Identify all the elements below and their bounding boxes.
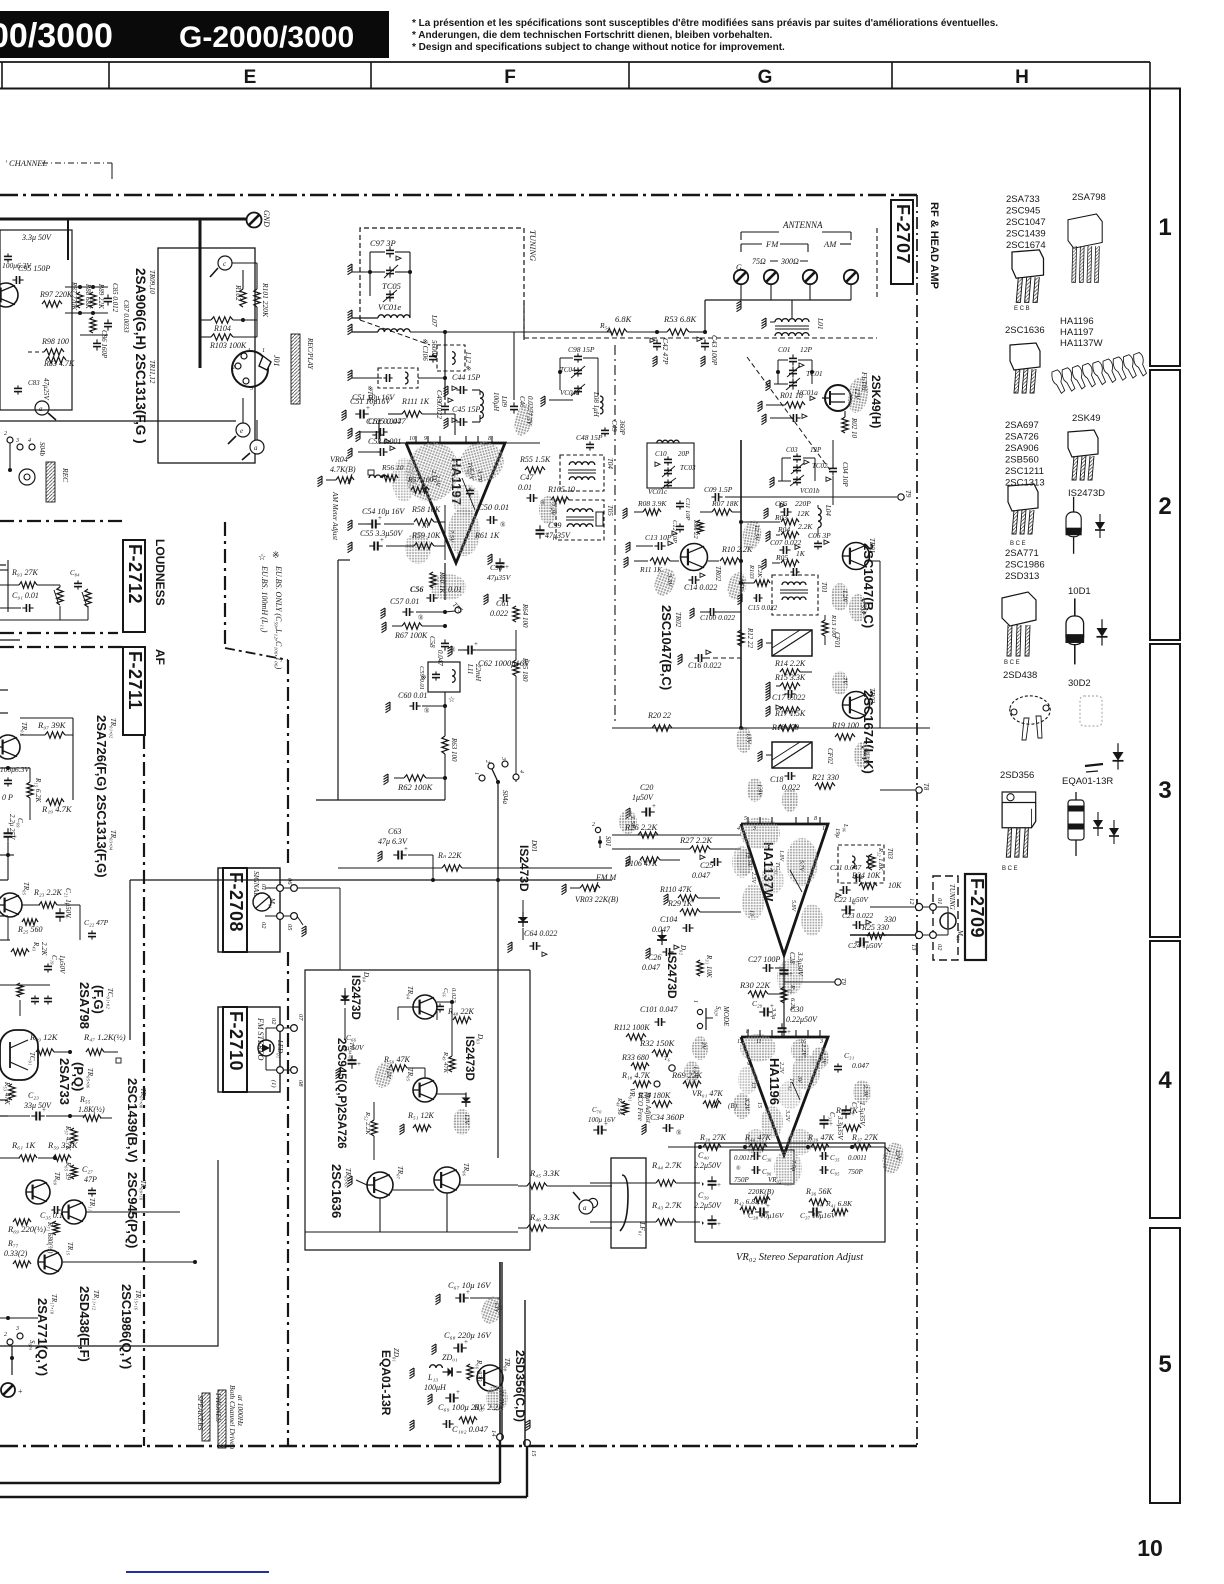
af block right dash border [287, 952, 289, 1445]
block label F-2711 AF [123, 647, 145, 735]
svg-text:2SA798: 2SA798 [1072, 192, 1106, 203]
svg-text:☆: ☆ [258, 552, 266, 562]
title bar (black) [0, 11, 389, 58]
svg-text:12: 12 [737, 1039, 743, 1045]
svg-text:+: + [787, 1028, 791, 1036]
svg-text:R₅₉ 3.3K: R₅₉ 3.3K [47, 1140, 79, 1150]
capacitor C46 0.022 [510, 405, 518, 407]
svg-text:R₂₃ 2.2K: R₂₃ 2.2K [33, 888, 62, 897]
IF transformer T06 dashed box [378, 368, 418, 388]
svg-text:R111 1K: R111 1K [401, 397, 430, 406]
svg-text:(1): (1) [270, 1080, 277, 1088]
svg-text:※: ※ [272, 550, 280, 560]
svg-text:3.3μ 50V: 3.3μ 50V [21, 233, 52, 242]
capacitor C58 0.047 [441, 642, 449, 644]
dashed gang link diagonal [747, 357, 830, 470]
svg-text:C10: C10 [655, 450, 667, 458]
svg-text:13: 13 [748, 910, 754, 916]
svg-text:100μ6.3V: 100μ6.3V [2, 261, 32, 270]
svg-text:D₀₃: D₀₃ [476, 1033, 484, 1044]
svg-text:REC: REC [61, 467, 70, 483]
svg-text:R103: R103 [748, 564, 755, 579]
svg-text:TR₀₁: TR₀₁ [20, 722, 28, 735]
svg-text:C₂₃: C₂₃ [28, 1091, 39, 1100]
transistor TR01 2SC1047 right [843, 543, 870, 570]
svg-text:2SC1047(B,C): 2SC1047(B,C) [659, 605, 674, 690]
svg-text:T03: T03 [886, 848, 894, 859]
svg-text:R₃₇ 27K: R₃₇ 27K [851, 1133, 878, 1142]
resistor R65 39 [71, 1165, 77, 1179]
svg-text:5600P: 5600P [430, 340, 438, 359]
hatch marks eqa left [410, 1368, 415, 1379]
loudness interior pot 2 [85, 589, 91, 607]
svg-text:12: 12 [908, 898, 915, 905]
resistor R22 1.8K [869, 854, 875, 870]
svg-text:2SC1439: 2SC1439 [1006, 229, 1046, 240]
capacitor C12 10P [676, 525, 684, 527]
svg-text:R₂₉: R₂₉ [789, 984, 796, 994]
svg-text:C₈₄: C₈₄ [70, 569, 80, 577]
svg-text:C₃₅ 0.1: C₃₅ 0.1 [40, 1211, 63, 1220]
svg-text:F-2709: F-2709 [967, 878, 987, 938]
svg-text:IS2473D: IS2473D [517, 845, 531, 892]
svg-text:RF & HEAD AMP: RF & HEAD AMP [928, 202, 940, 289]
bottom bus wire 1 [0, 1482, 500, 1484]
svg-text:Rₙ 22K: Rₙ 22K [437, 851, 462, 860]
svg-text:R33 680: R33 680 [621, 1053, 649, 1062]
svg-text:VC01e: VC01e [378, 302, 401, 312]
svg-text:C27 100P: C27 100P [748, 955, 780, 964]
svg-text:2SK49(H): 2SK49(H) [869, 375, 883, 428]
resistor R02 10 [842, 417, 848, 433]
diode symbol IS2473 [1095, 514, 1105, 538]
svg-text:TR₁₁: TR₁₁ [88, 1198, 96, 1211]
svg-text:(F,G): (F,G) [91, 985, 106, 1014]
svg-text:R103 100K: R103 100K [209, 341, 247, 350]
svg-text:REC/PLAY: REC/PLAY [306, 337, 314, 370]
svg-text:S₀₇ₐ: S₀₇ₐ [28, 1340, 36, 1350]
svg-text:08: 08 [297, 1080, 304, 1087]
svg-text:C20: C20 [640, 783, 653, 792]
svg-text:R24 10K: R24 10K [851, 871, 881, 880]
svg-text:3: 3 [500, 756, 506, 760]
svg-text:FM: FM [765, 239, 779, 249]
svg-text:2SA726: 2SA726 [1005, 432, 1039, 443]
gray blob 22.5V [486, 1385, 508, 1411]
svg-text:C63: C63 [388, 827, 401, 836]
svg-text:R13 100: R13 100 [830, 614, 837, 638]
package drawing TO-220 2SD356 [1002, 792, 1036, 857]
svg-text:R21 330: R21 330 [811, 773, 839, 782]
svg-text:a: a [254, 444, 258, 452]
svg-text:VR₀₂ Stereo Separation Adjust: VR₀₂ Stereo Separation Adjust [736, 1252, 864, 1263]
resistor R102 [240, 289, 246, 307]
svg-text:R₂₅ 560: R₂₅ 560 [17, 925, 42, 934]
LED01 lamp [258, 1040, 274, 1056]
svg-text:C09 1.5P: C09 1.5P [704, 485, 733, 494]
svg-text:R₃₆ 56K: R₃₆ 56K [805, 1187, 832, 1196]
left edge wire stubs [0, 689, 8, 691]
svg-text:C97 3P: C97 3P [370, 238, 396, 248]
svg-text:R₄₁ 6.8K: R₄₁ 6.8K [825, 1199, 853, 1208]
svg-text:C₃₁: C₃₁ [844, 1051, 855, 1060]
svg-text:3V: 3V [796, 1075, 802, 1084]
transistor TR03 2SC1674 [843, 692, 870, 719]
svg-text:02: 02 [270, 1018, 277, 1025]
svg-text:L12 ※: L12 ※ [464, 351, 472, 371]
svg-text:01: 01 [260, 884, 267, 891]
svg-text:C54 10μ 16V: C54 10μ 16V [362, 507, 405, 516]
svg-text:4: 4 [737, 825, 740, 832]
switch S02a MODE [697, 1009, 702, 1014]
schematic bottom dash-dot border [0, 1445, 917, 1448]
terminal a right [250, 440, 264, 454]
row index box 4 [1150, 941, 1180, 1218]
loudness interior wires [0, 0, 1, 560]
svg-text:TR₁₇‚₁₈: TR₁₇‚₁₈ [50, 1294, 58, 1315]
IF transformer T04 box [560, 455, 604, 491]
tone stack caps [31, 997, 39, 999]
svg-text:T01: T01 [820, 582, 828, 593]
svg-text:R20 22: R20 22 [647, 711, 671, 720]
svg-text:C₆₆: C₆₆ [442, 988, 449, 997]
svg-text:750P: 750P [734, 1176, 750, 1184]
varicap VC01a [789, 381, 797, 383]
gray blob 1.2V [831, 583, 849, 611]
tuning motor M01 [940, 913, 956, 929]
svg-text:360P: 360P [618, 419, 626, 436]
svg-text:L01: L01 [816, 317, 825, 330]
svg-text:1K: 1K [796, 549, 806, 558]
svg-text:J01: J01 [272, 355, 281, 367]
svg-text:F: F [504, 67, 516, 88]
svg-text:13: 13 [750, 1082, 756, 1088]
wires above HA1197 [379, 442, 406, 444]
svg-text:5.7V: 5.7V [798, 860, 804, 873]
capacitor C106 5600P [429, 355, 437, 357]
svg-text:2SC1047: 2SC1047 [1006, 217, 1046, 228]
svg-text:R₇₁ 680(½): R₇₁ 680(½) [46, 1221, 54, 1254]
IF bus wire [612, 727, 930, 729]
svg-text:+: + [18, 1387, 23, 1396]
svg-text:01: 01 [936, 898, 943, 905]
loudness block border dash-dot [0, 520, 125, 522]
svg-text:F-2707: F-2707 [893, 204, 913, 264]
svg-text:D₀₄: D₀₄ [362, 971, 370, 982]
svg-text:R53 6.8K: R53 6.8K [663, 314, 697, 324]
svg-text:R58 10K: R58 10K [411, 505, 441, 514]
svg-text:EU.BS. 100mH (L₁₁): EU.BS. 100mH (L₁₁) [260, 565, 269, 633]
wires tuning caps [370, 251, 385, 253]
wire vertical tape box [199, 219, 202, 368]
wires under HA1197 left [384, 523, 414, 525]
svg-text:TR11,12: TR11,12 [148, 360, 156, 384]
diode symbol 10D1 [1097, 619, 1108, 645]
svg-text:TC03: TC03 [680, 464, 696, 472]
svg-text:9: 9 [745, 1062, 751, 1065]
ground hatch antenna coil 1 [348, 264, 353, 275]
svg-text:R₄₃ 2.7K: R₄₃ 2.7K [651, 1200, 683, 1210]
svg-text:C06 3P: C06 3P [808, 531, 831, 540]
svg-text:C04 10P: C04 10P [841, 462, 849, 487]
svg-text:a: a [583, 1204, 587, 1212]
hatch TR07 base [348, 1176, 353, 1187]
svg-text:+: + [474, 640, 478, 648]
resistor R15 6.2K [27, 782, 33, 798]
svg-text:R02 10: R02 10 [850, 417, 858, 439]
svg-text:3.3V: 3.3V [666, 573, 673, 587]
transistor TR01 af [0, 735, 20, 759]
svg-text:TC04: TC04 [560, 366, 576, 374]
capacitor C42 47P [653, 342, 661, 344]
svg-text:R₆₅ 39: R₆₅ 39 [64, 1161, 72, 1180]
resistor R28 6.2K [781, 987, 787, 1003]
svg-text:2.2V: 2.2V [778, 1062, 784, 1075]
svg-text:02: 02 [260, 922, 267, 929]
svg-text:2: 2 [592, 822, 595, 828]
gray blob 7V [832, 671, 848, 695]
svg-text:2: 2 [1158, 493, 1171, 520]
block box F-2709 [933, 876, 958, 960]
svg-text:0.01: 0.01 [518, 483, 532, 492]
package drawing diode IS2473 [1066, 497, 1081, 554]
svg-text:2SD313: 2SD313 [1005, 571, 1039, 582]
svg-text:C98 15P: C98 15P [568, 345, 595, 354]
wire box af1 [72, 718, 74, 800]
svg-text:R01 18: R01 18 [779, 391, 803, 400]
block label F-2712 LOUDNESS [123, 540, 145, 632]
package drawing SIP 2SA798 [1068, 214, 1102, 282]
svg-text:14: 14 [490, 1430, 497, 1437]
resistor R06 22 [697, 520, 703, 534]
svg-text:TR₀₁‚₀₂: TR₀₁‚₀₂ [109, 718, 117, 739]
svg-text:2SB560: 2SB560 [1005, 455, 1039, 466]
svg-text:* La présention et les spécifi: * La présention et les spécifications so… [412, 18, 998, 29]
wire down power rail [499, 1262, 501, 1437]
trimmer TC05 [386, 269, 394, 271]
capacitor C87 0.0033 [104, 322, 112, 324]
svg-text:7.5μ: 7.5μ [790, 1160, 797, 1172]
svg-text:2.2μ50V: 2.2μ50V [694, 1201, 722, 1210]
svg-text:ZD₀₁: ZD₀₁ [392, 1348, 400, 1362]
svg-text:TR₀₉: TR₀₉ [53, 1172, 61, 1186]
svg-text:11: 11 [756, 1039, 762, 1045]
svg-text:EQA01-13R: EQA01-13R [379, 1350, 393, 1416]
svg-text:R59 10K: R59 10K [411, 531, 441, 540]
svg-text:220P: 220P [795, 499, 811, 508]
svg-text:a: a [39, 405, 43, 413]
svg-text:R29 1K: R29 1K [667, 899, 693, 908]
svg-text:GND: GND [262, 210, 271, 227]
AM det box borders [337, 560, 339, 800]
svg-text:TC01: TC01 [806, 369, 823, 378]
svg-text:+: + [717, 1220, 721, 1228]
wire to TP [725, 496, 897, 498]
gray blob 12V muting2 [453, 1109, 471, 1135]
svg-text:100μH: 100μH [492, 392, 500, 412]
svg-text:2SC1636: 2SC1636 [329, 1164, 344, 1218]
svg-text:2SA726(F,G) 2SC1313(F,G): 2SA726(F,G) 2SC1313(F,G) [94, 715, 109, 878]
trimmer TC01 [789, 369, 797, 371]
svg-text:220K(B): 220K(B) [748, 1187, 774, 1196]
svg-text:R₁₈ 4.7K: R₁₈ 4.7K [621, 1071, 650, 1080]
svg-text:M₀₁: M₀₁ [956, 929, 964, 941]
svg-text:C₁₉: C₁₉ [50, 955, 58, 965]
svg-text:5: 5 [744, 816, 747, 822]
svg-text:F-2708: F-2708 [226, 872, 246, 932]
resistor R31 10K [697, 960, 703, 976]
DIN connector J01 [232, 351, 268, 387]
package drawing TO-126 2SA771 [1002, 592, 1036, 656]
capacitor C86 160P [93, 342, 101, 344]
REC jack circle [19, 469, 35, 485]
halftone blobs HA1196 [740, 1034, 776, 1062]
svg-text:1.2V: 1.2V [692, 1066, 699, 1079]
main border terminals 12 13 [915, 903, 922, 910]
svg-text:®: ® [736, 1165, 741, 1172]
svg-text:C56: C56 [410, 585, 423, 594]
svg-text:10D1: 10D1 [1068, 586, 1091, 597]
svg-text:C15 0.022: C15 0.022 [748, 604, 778, 612]
svg-text:2.1V: 2.1V [434, 475, 440, 488]
svg-text:F-2710: F-2710 [226, 1011, 246, 1071]
diode symbol 30D2 [1113, 743, 1124, 769]
wire long horizontal [0, 420, 236, 422]
svg-text:1.8K(½): 1.8K(½) [78, 1105, 105, 1114]
resistor R12 22 [738, 630, 744, 646]
svg-text:3: 3 [819, 1039, 823, 1045]
REC hatched label 150mV [46, 462, 55, 502]
transistor TR left [0, 283, 18, 307]
svg-text:C64 0.022: C64 0.022 [524, 929, 557, 938]
svg-text:75Ω: 75Ω [752, 257, 766, 266]
svg-text:C₂₉: C₂₉ [752, 999, 763, 1008]
svg-text:TR₀₅: TR₀₅ [406, 1068, 414, 1082]
capacitor C43 100P [701, 342, 709, 344]
svg-text:13: 13 [910, 944, 917, 951]
row index box 1 [1150, 89, 1180, 367]
svg-text:7V: 7V [841, 677, 848, 685]
FM meter adjust VR03 [580, 885, 600, 891]
svg-text:C28: C28 [788, 952, 796, 964]
ground mark right of F2708 [302, 926, 307, 937]
svg-text:ANTENNA: ANTENNA [782, 220, 823, 230]
svg-text:R₄₈ 56: R₄₈ 56 [616, 1097, 623, 1115]
svg-text:HA1137W: HA1137W [1060, 338, 1103, 349]
IF transformer T01 dashed [772, 575, 818, 615]
svg-text:1μ50V: 1μ50V [58, 955, 66, 974]
svg-text:9: 9 [424, 436, 427, 442]
IF transformer T05 box [556, 500, 604, 540]
bus at 1147 [668, 1146, 885, 1148]
svg-text:5.8V: 5.8V [790, 900, 796, 913]
gray blob 13V [736, 727, 752, 753]
svg-text:S₀₂ₐ: S₀₂ₐ [714, 1006, 722, 1016]
terminal b circle [588, 1198, 597, 1207]
svg-text:R57 100: R57 100 [407, 475, 433, 484]
svg-text:TR02: TR02 [714, 566, 722, 582]
svg-text:T9: T9 [840, 978, 847, 986]
main vertical bus [740, 440, 742, 728]
hatched level label 30mV/150mV/47k [291, 334, 300, 404]
row index box 3 [1150, 644, 1180, 937]
svg-text:TC₀₁: TC₀₁ [774, 862, 781, 874]
svg-text:B C E: B C E [1004, 660, 1020, 666]
transistor TR05 muting [413, 1078, 437, 1102]
svg-text:VR03 22K(B): VR03 22K(B) [575, 895, 619, 904]
stereo separation outer box [695, 1143, 885, 1242]
svg-text:2SA906: 2SA906 [1005, 443, 1039, 454]
svg-text:C₉₆: C₉₆ [762, 1168, 772, 1176]
svg-text:3.2V: 3.2V [784, 1109, 790, 1123]
svg-text:R₄₉ 12K: R₄₉ 12K [29, 1032, 59, 1042]
resistor network R87 270K [77, 292, 83, 308]
af output box [0, 1160, 218, 1346]
wires resistor ladder [65, 286, 108, 288]
bus into MPX [612, 834, 741, 836]
resistor R53 47K [9, 1084, 15, 1100]
svg-text:2: 2 [232, 365, 235, 371]
svg-text:TC02: TC02 [812, 462, 828, 470]
svg-text:5: 5 [1158, 1351, 1171, 1378]
svg-text:L₁₃: L₁₃ [427, 1373, 438, 1382]
svg-text:R₅₃ 47K: R₅₃ 47K [3, 1081, 11, 1105]
resistor R88 68K [90, 292, 96, 308]
svg-text:C87 0.0033: C87 0.0033 [122, 300, 130, 333]
svg-text:R19 100: R19 100 [831, 721, 859, 730]
svg-text:3: 3 [15, 438, 19, 444]
svg-text:Both Channel Driven: Both Channel Driven [228, 1385, 237, 1449]
svg-text:AF: AF [153, 649, 167, 665]
svg-text:TUNING: TUNING [528, 230, 538, 261]
tuning dashed box [360, 228, 524, 340]
gray blob 13V eqa [478, 1293, 506, 1326]
svg-text:3: 3 [15, 1326, 19, 1332]
svg-text:C47: C47 [520, 473, 534, 482]
svg-text:07: 07 [297, 1014, 304, 1021]
svg-text:C₃₉: C₃₉ [698, 1191, 709, 1200]
svg-text:* Anderungen, die dem technisc: * Anderungen, die dem technischen Fortsc… [412, 30, 772, 41]
svg-text:8: 8 [488, 436, 491, 442]
svg-text:TR₀₆: TR₀₆ [462, 1163, 470, 1177]
gray blob 1.2V [684, 1061, 700, 1083]
svg-text:2SA733: 2SA733 [1006, 194, 1040, 205]
IF transformer T02 T03 dashed [838, 845, 884, 883]
svg-text:05: 05 [286, 924, 293, 931]
svg-text:7.2V: 7.2V [549, 503, 556, 516]
svg-text:4: 4 [28, 437, 31, 444]
svg-text:12P: 12P [800, 345, 813, 354]
svg-text:2SA697: 2SA697 [1005, 420, 1039, 431]
wire apex to HA1196 [783, 955, 785, 1037]
inner box left [730, 1150, 794, 1184]
svg-text:C100 0.022: C100 0.022 [700, 613, 735, 622]
terminal c [218, 256, 232, 270]
svg-text:0.047: 0.047 [642, 963, 661, 972]
af block border dash-dot [0, 646, 125, 648]
svg-text:' CHANNEL: ' CHANNEL [5, 158, 47, 168]
svg-text:C₇₀: C₇₀ [592, 1106, 602, 1114]
resistor R71 680 [53, 1221, 59, 1235]
af wires 1 [0, 867, 1, 869]
svg-text:0.047: 0.047 [692, 871, 711, 880]
svg-text:C11 10P: C11 10P [684, 498, 691, 520]
halftone blobs HA1137W [740, 817, 780, 849]
row index box 2 [1150, 370, 1180, 640]
capacitor C15 0.022 [755, 594, 757, 602]
svg-text:2.2V: 2.2V [800, 1044, 807, 1057]
svg-text:C50 0.01: C50 0.01 [478, 502, 509, 512]
